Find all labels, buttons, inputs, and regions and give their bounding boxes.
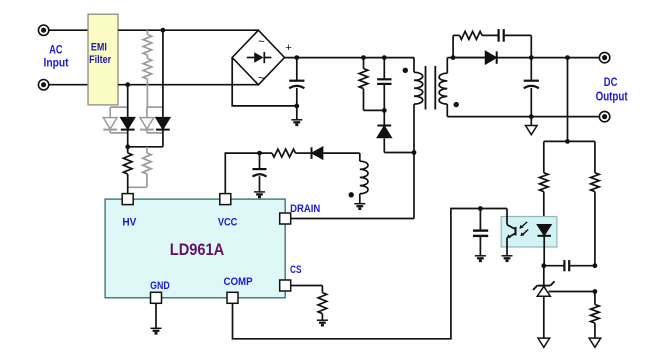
ground comp cap xyxy=(475,256,486,261)
junction startup node xyxy=(125,144,130,149)
transformer primary winding xyxy=(414,58,423,219)
ground aux winding xyxy=(354,204,365,209)
resistor CS xyxy=(318,293,327,321)
startup resistor alt (gray) xyxy=(128,147,152,188)
junction comp cap right xyxy=(593,263,598,268)
svg-text:Filter: Filter xyxy=(89,54,112,66)
junction output cap top xyxy=(529,55,534,60)
pin COMP xyxy=(227,292,238,303)
svg-text:CS: CS xyxy=(290,264,302,276)
svg-text:~: ~ xyxy=(258,73,265,85)
junction bulk cap top xyxy=(294,55,299,60)
shunt regulator TL431 xyxy=(533,266,555,338)
junction output cap bottom xyxy=(529,114,534,119)
resistor divider upper xyxy=(591,141,600,265)
pin DRAIN xyxy=(280,213,291,224)
svg-text:Output: Output xyxy=(596,90,629,104)
wire VCC riser xyxy=(225,153,259,193)
wire top rail EMI to bridge xyxy=(118,29,258,31)
pin CS xyxy=(280,280,291,291)
bridge rectifier xyxy=(232,30,284,85)
optocoupler box xyxy=(501,217,557,248)
svg-text:Input: Input xyxy=(44,57,69,70)
startup diode alt (gray) right xyxy=(140,107,163,133)
svg-text:AC: AC xyxy=(49,43,63,56)
label CS xyxy=(290,264,302,276)
clamp resistor xyxy=(359,58,384,111)
junction top rail xyxy=(161,28,166,33)
junction clamp R xyxy=(361,55,366,60)
label GND xyxy=(150,280,170,292)
optocoupler light arrows xyxy=(520,222,529,236)
ground VCC cap xyxy=(254,192,265,197)
label AC Input xyxy=(44,43,69,69)
wire TL431 ref xyxy=(549,291,595,293)
capacitor VCC xyxy=(253,153,267,192)
wire divider top rail xyxy=(544,140,595,142)
pin GND xyxy=(151,292,162,303)
wire AC bottom to EMI xyxy=(49,84,88,86)
capacitor COMP xyxy=(473,209,488,256)
label HV xyxy=(122,217,137,229)
junction bulk cap bottom xyxy=(294,104,299,109)
terminal AC input bottom xyxy=(38,80,48,90)
ground TL431 (triangle) xyxy=(538,338,550,347)
svg-text:+: + xyxy=(285,42,291,54)
svg-text:~: ~ xyxy=(258,37,265,49)
phase dot secondary xyxy=(454,102,459,107)
EMI filter block xyxy=(88,14,118,105)
junction divider top xyxy=(565,139,570,144)
transformer secondary winding xyxy=(439,58,447,117)
resistor LED bias xyxy=(540,141,549,224)
phase dot primary xyxy=(403,68,408,73)
capacitor bulk xyxy=(289,58,304,106)
junction snubber left xyxy=(451,55,456,60)
label DC Output xyxy=(596,75,629,104)
junction comp cap xyxy=(478,206,483,211)
svg-text:EMI: EMI xyxy=(91,41,107,53)
wire output rail bottom xyxy=(447,116,599,118)
startup resistor to HV xyxy=(123,147,132,194)
transformer aux winding xyxy=(360,153,368,204)
junction feedback tap xyxy=(565,55,570,60)
junction ref node xyxy=(593,289,598,294)
wire CS xyxy=(291,286,323,293)
clamp capacitor xyxy=(377,58,391,111)
startup diode alt (gray) left xyxy=(103,107,127,133)
junction VCC cap xyxy=(257,151,262,156)
svg-text:DRAIN: DRAIN xyxy=(290,203,320,215)
wire COMP to opto xyxy=(233,209,508,339)
label bridge ~ bottom xyxy=(258,73,265,85)
junction bottom rail xyxy=(125,82,130,87)
optocoupler phototransistor xyxy=(506,209,515,248)
wire AC top to EMI xyxy=(49,29,88,31)
discharge resistor chain (gray) xyxy=(143,30,163,107)
optocoupler LED xyxy=(538,225,551,266)
snubber RC xyxy=(453,29,531,57)
wire startup cathodes join xyxy=(128,146,163,148)
capacitor compensation xyxy=(544,260,595,271)
junction clamp C xyxy=(382,55,387,60)
svg-text:HV: HV xyxy=(122,217,137,229)
ground output (triangle) xyxy=(526,117,538,135)
junction drain primary xyxy=(412,150,417,155)
resistor divider lower xyxy=(591,292,600,339)
clamp diode xyxy=(377,110,414,152)
wire bottom rail EMI to bridge xyxy=(118,84,258,86)
ground bridge xyxy=(291,106,302,125)
capacitor output xyxy=(524,58,539,117)
startup diode D1 xyxy=(121,85,135,147)
label bridge + xyxy=(285,42,291,54)
diode VCC xyxy=(296,147,360,159)
ground opto emitter xyxy=(502,247,513,261)
ground CS xyxy=(317,320,328,325)
phase dot aux xyxy=(349,192,354,197)
terminal AC input top xyxy=(38,25,48,35)
label VCC xyxy=(218,217,238,229)
startup diode D2 xyxy=(156,30,170,147)
terminal DC output minus xyxy=(599,111,609,121)
wire output rail top xyxy=(531,57,599,59)
resistor VCC xyxy=(260,149,296,157)
output diode xyxy=(453,51,531,63)
wire bridge negative return xyxy=(232,58,297,106)
ground divider (triangle) xyxy=(589,338,601,347)
svg-text:COMP: COMP xyxy=(223,276,252,288)
wire feedback tap down xyxy=(567,58,569,142)
wire bus rail xyxy=(285,57,415,59)
pin VCC xyxy=(220,194,231,205)
svg-text:GND: GND xyxy=(150,280,170,292)
IC LD961A body xyxy=(105,199,285,298)
junction clamp bottom xyxy=(382,108,387,113)
wire secondary top rail xyxy=(447,57,485,59)
svg-text:DC: DC xyxy=(604,75,618,89)
svg-text:LD961A: LD961A xyxy=(170,240,225,259)
label DRAIN xyxy=(290,203,320,215)
transformer core xyxy=(426,66,436,110)
svg-text:VCC: VCC xyxy=(218,217,238,229)
label COMP xyxy=(223,276,252,288)
ground GND pin xyxy=(151,303,162,333)
junction LED cathode xyxy=(541,263,546,268)
pin HV xyxy=(122,194,133,205)
terminal DC output plus xyxy=(599,52,609,62)
label bridge ~ top xyxy=(258,37,265,49)
wire DRAIN to primary xyxy=(291,218,414,220)
